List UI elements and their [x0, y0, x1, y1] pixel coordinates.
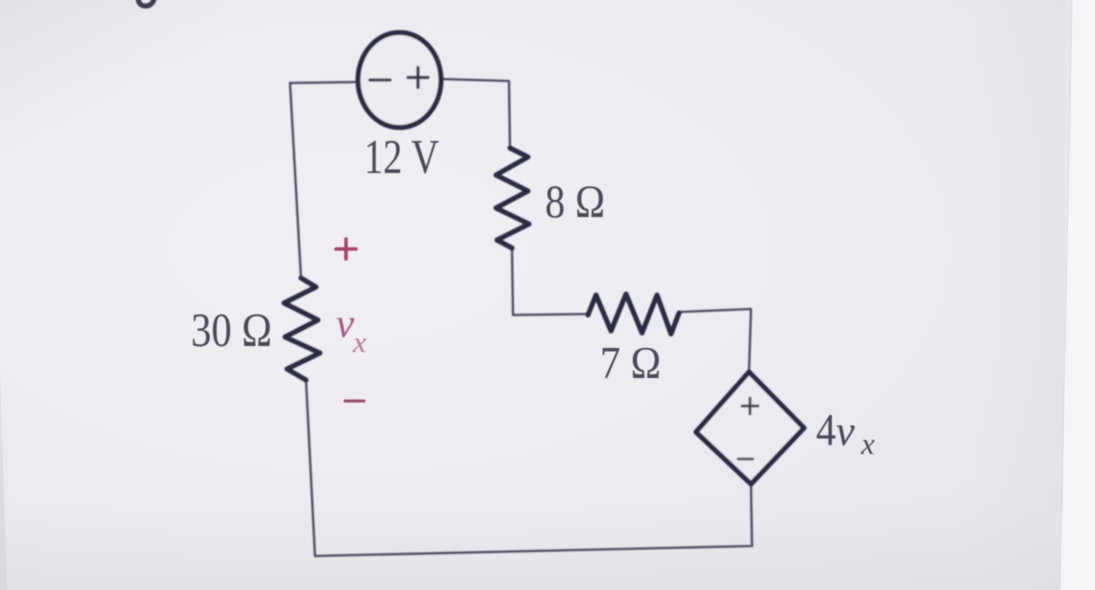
svg-text:8 Ω: 8 Ω: [545, 176, 605, 228]
svg-text:30 Ω: 30 Ω: [191, 304, 272, 357]
svg-text:7 Ω: 7 Ω: [600, 338, 661, 388]
svg-text:x: x: [860, 426, 875, 461]
svg-text:v: v: [836, 409, 855, 455]
svg-text:12 V: 12 V: [364, 129, 439, 184]
svg-text:x: x: [352, 326, 367, 359]
svg-text:4: 4: [816, 405, 836, 455]
